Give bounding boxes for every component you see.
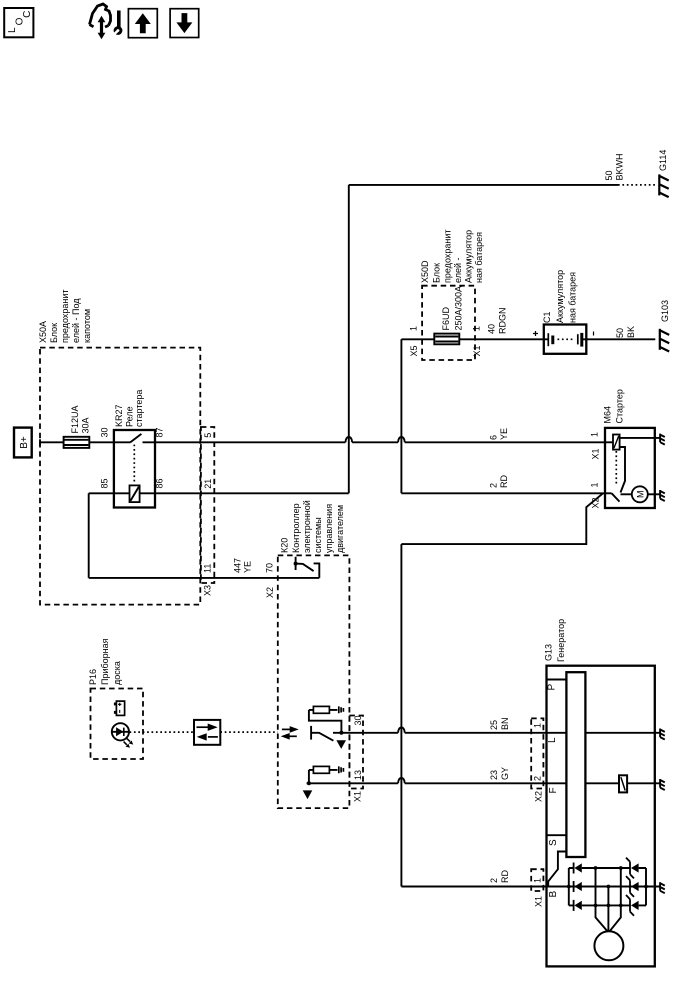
svg-text:RD: RD	[499, 475, 509, 488]
svg-text:предохранит: предохранит	[443, 230, 453, 283]
wire battery to G103 50 BK	[586, 338, 655, 340]
wire coil 85 to left	[89, 492, 130, 494]
starter actuation dashed link	[615, 451, 617, 486]
svg-text:1: 1	[472, 326, 482, 331]
starter switch blade	[605, 493, 620, 501]
svg-text:G13: G13	[544, 644, 554, 661]
wire hop 25 BN over B run	[398, 727, 405, 732]
relay KR27 actuation dashed link	[133, 445, 135, 484]
svg-text:системы: системы	[313, 517, 323, 553]
label 2 RD starter	[489, 475, 510, 488]
svg-text:1: 1	[533, 878, 543, 883]
svg-text:87: 87	[155, 427, 165, 437]
label 40 RDGN	[487, 308, 508, 335]
svg-text:X1: X1	[534, 896, 544, 907]
svg-text:Аккумулятор: Аккумулятор	[464, 230, 474, 283]
svg-text:YE: YE	[499, 428, 509, 440]
generator G13 box	[547, 666, 655, 967]
svg-text:G114: G114	[658, 150, 668, 171]
S sense wire	[548, 852, 566, 887]
svg-text:X1: X1	[591, 448, 601, 459]
fuse block X50A dashed box	[40, 348, 200, 605]
terminal L line	[547, 732, 660, 734]
svg-text:6: 6	[489, 435, 499, 440]
connector X2 of generator dashed strip	[531, 718, 543, 788]
svg-text:М: М	[635, 491, 645, 499]
fuse F6UD	[434, 334, 459, 345]
svg-text:BKWH: BKWH	[615, 154, 625, 181]
svg-text:C1: C1	[542, 311, 552, 323]
svg-text:B: B	[548, 891, 559, 898]
svg-text:Аккумулятор: Аккумулятор	[555, 270, 565, 323]
svg-text:F6UD: F6UD	[441, 306, 451, 330]
wire 23 GY to generator F	[405, 782, 547, 784]
svg-text:X2: X2	[534, 791, 544, 802]
wire 85 to X3 pin 11 and K20 pin 70	[89, 577, 320, 579]
wire battery vertical top corner	[400, 339, 402, 493]
wire to motor	[621, 493, 632, 495]
rectifier row1 line	[569, 867, 646, 869]
label 50 BKWH	[604, 154, 625, 181]
wire fuse to relay 30	[89, 441, 130, 443]
avalanche diode row2 right	[626, 876, 639, 897]
svg-text:F: F	[548, 787, 559, 793]
svg-text:S: S	[548, 839, 559, 846]
B+ power tap	[14, 428, 32, 458]
svg-text:L: L	[547, 737, 558, 743]
toolbar icon down-arrow box	[170, 9, 199, 38]
stator phase B	[607, 887, 609, 932]
K20 driver circuit pin 13	[303, 766, 344, 799]
starter solenoid coil	[605, 435, 620, 450]
svg-text:YE: YE	[243, 561, 253, 573]
pin tick at X50A boundary	[39, 439, 41, 445]
relay KR27 switch contact	[130, 434, 141, 442]
ground G103	[660, 329, 669, 352]
starter M64 box	[605, 428, 655, 508]
svg-text:C: C	[22, 11, 33, 18]
ground G114	[659, 174, 668, 197]
svg-text:40: 40	[487, 324, 497, 334]
wire hop 23 GY over B run	[398, 778, 405, 783]
svg-text:Блок: Блок	[49, 323, 59, 343]
rectifier row3 line	[569, 904, 646, 906]
svg-text:двигателем: двигателем	[335, 505, 345, 553]
ground generator F	[660, 779, 665, 790]
svg-text:13: 13	[353, 770, 363, 780]
wire B+ to fuse F12UA	[40, 441, 64, 443]
wire coil 86 to X3 pin 21	[140, 492, 349, 494]
svg-text:1: 1	[590, 482, 600, 487]
svg-text:RD: RD	[500, 870, 510, 883]
dotted data line to K20	[220, 731, 277, 733]
fuse block X50D dashed box	[422, 286, 475, 360]
label K20 engine control module	[280, 500, 346, 553]
label X50D fuse block battery	[420, 230, 484, 283]
svg-text:11: 11	[203, 564, 213, 573]
stator phase C	[610, 868, 621, 931]
svg-text:23: 23	[489, 770, 499, 780]
label C1 battery	[542, 270, 578, 323]
svg-text:25: 25	[489, 720, 499, 730]
label X50A fuse block under hood	[38, 290, 92, 343]
toolbar icon up-arrow box	[128, 9, 157, 38]
connector X1 of generator dashed strip	[531, 869, 543, 891]
svg-text:Генератор: Генератор	[556, 619, 566, 662]
stator phase A	[596, 868, 608, 931]
svg-text:50: 50	[604, 170, 614, 180]
wire fuse to battery 40 RDGN	[459, 338, 544, 340]
toolbar icon shift-arrows with wrench	[90, 4, 123, 39]
relay KR27 coil	[130, 485, 140, 502]
ECM K20 dashed box	[278, 555, 350, 808]
charge indicator LED	[112, 723, 133, 748]
svg-text:50: 50	[615, 328, 625, 338]
label M64 starter	[603, 389, 625, 423]
svg-text:30A: 30A	[81, 417, 91, 433]
svg-text:GY: GY	[500, 767, 510, 780]
svg-text:электронной: электронной	[302, 500, 312, 553]
svg-text:G103: G103	[660, 300, 670, 322]
svg-text:1: 1	[590, 432, 600, 437]
diode row3 left	[574, 900, 582, 911]
wire 86 vertical to G114 run	[348, 185, 350, 493]
ground starter motor	[660, 490, 665, 501]
svg-text:ная батарея: ная батарея	[568, 272, 578, 323]
K20 driver circuit pin 30	[309, 706, 346, 749]
diode row2 left	[574, 881, 582, 892]
svg-text:Реле: Реле	[125, 406, 135, 427]
dotted data line LED to arrows box	[130, 731, 195, 733]
wire 25 BN to generator L	[405, 732, 547, 734]
ground generator B	[660, 882, 665, 893]
wire starter X2 branch to generator	[401, 493, 603, 544]
label 50 BK	[615, 326, 636, 338]
wire hop main over 86-vertical	[346, 437, 353, 442]
ground generator L	[660, 729, 665, 740]
svg-text:предохранит: предохранит	[60, 290, 70, 343]
wire main 6 YE to starter	[405, 441, 605, 443]
svg-text:управления: управления	[324, 504, 334, 553]
svg-text:X1: X1	[472, 345, 482, 356]
avalanche diode row3 right	[626, 895, 639, 916]
wire 2 RD battery to starter X2	[401, 492, 605, 494]
svg-text:елей -: елей -	[453, 258, 463, 284]
label 447 YE	[233, 558, 253, 573]
svg-text:X50D: X50D	[420, 260, 430, 283]
wire main continue to battery vertical	[352, 441, 398, 443]
label 2 RD generator	[489, 870, 510, 883]
svg-text:250A/300A: 250A/300A	[454, 286, 464, 331]
svg-text:Блок: Блок	[432, 263, 442, 283]
field suppression element	[619, 775, 627, 792]
label 6 YE	[489, 428, 510, 440]
svg-text:RDGN: RDGN	[498, 308, 508, 335]
svg-text:30: 30	[353, 715, 363, 725]
svg-text:X50A: X50A	[38, 321, 48, 343]
terminal P stub	[547, 679, 567, 681]
serial data arrows at K20 boundary	[281, 726, 299, 740]
minus mark	[593, 332, 595, 336]
label F12UA 30A	[70, 405, 91, 433]
battery telltale icon	[114, 701, 125, 715]
svg-text:30: 30	[100, 427, 110, 437]
svg-text:L: L	[7, 27, 18, 33]
svg-text:86: 86	[155, 478, 165, 488]
fuse F12UA	[64, 437, 90, 448]
wire relay 87 side	[143, 441, 346, 443]
starter motor M	[632, 486, 648, 502]
svg-text:2: 2	[489, 878, 499, 883]
wire 85 down leg	[88, 493, 90, 578]
wire generator B vertical run	[400, 544, 402, 886]
svg-text:К20: К20	[280, 538, 290, 553]
svg-text:ная батарея: ная батарея	[474, 232, 484, 283]
svg-text:1: 1	[409, 326, 419, 331]
instrument panel P16 dashed box	[91, 689, 144, 760]
svg-text:BK: BK	[626, 326, 636, 338]
svg-text:2: 2	[533, 776, 543, 781]
diode row1 left	[574, 863, 582, 874]
wire 2 RD to generator B	[401, 886, 546, 888]
svg-text:X2: X2	[265, 587, 275, 598]
rectifier right rail	[645, 868, 647, 905]
svg-text:доска: доска	[112, 661, 122, 685]
label P16 instrument panel	[88, 638, 122, 685]
toolbar icon LOC box	[4, 8, 33, 37]
svg-text:X1: X1	[353, 791, 363, 802]
svg-text:BN: BN	[500, 717, 510, 730]
label F6UD 250A/300A	[441, 286, 464, 331]
wire to G114 horizontal	[349, 184, 618, 186]
wire solenoid contact feed	[620, 447, 625, 493]
svg-text:70: 70	[265, 563, 275, 573]
svg-text:капотом: капотом	[82, 309, 92, 343]
connector X3 dashed strip	[201, 427, 214, 583]
connector X1 of K20 dashed strip	[349, 716, 363, 789]
terminal S stub	[547, 834, 567, 836]
svg-text:X3: X3	[203, 585, 213, 596]
svg-text:P: P	[547, 684, 558, 691]
dotted lead to G114	[618, 184, 655, 186]
svg-text:стартера: стартера	[134, 390, 144, 427]
label KR27 starter relay	[114, 390, 144, 427]
ground starter solenoid	[660, 434, 665, 445]
svg-text:P16: P16	[88, 669, 98, 685]
svg-text:F12UA: F12UA	[70, 405, 80, 433]
svg-text:Приборная: Приборная	[100, 638, 110, 685]
regulator bar	[566, 672, 585, 857]
svg-text:елей - Под: елей - Под	[71, 298, 81, 343]
svg-text:X5: X5	[409, 345, 419, 356]
svg-text:X2: X2	[591, 497, 601, 508]
svg-text:5: 5	[203, 433, 213, 438]
serial data arrows box	[194, 720, 220, 745]
battery C1	[544, 325, 587, 354]
svg-text:447: 447	[233, 558, 243, 573]
avalanche diode row1 right	[626, 858, 639, 879]
rectifier left rail	[568, 868, 570, 905]
rotor circle	[594, 931, 623, 960]
K20 pin 70 switch symbol	[294, 557, 320, 578]
label 25 BN	[489, 717, 510, 730]
svg-text:M64: M64	[603, 406, 613, 424]
relay KR27 box	[114, 430, 155, 508]
terminal B line	[547, 886, 660, 888]
svg-text:B+: B+	[19, 436, 30, 449]
svg-text:KR27: KR27	[114, 404, 124, 427]
wire motor to case ground	[648, 493, 660, 495]
svg-text:Стартер: Стартер	[615, 389, 625, 423]
wire solenoid to case ground	[620, 437, 660, 439]
svg-text:2: 2	[489, 483, 499, 488]
label 23 GY	[489, 767, 510, 780]
terminal F line	[547, 782, 660, 784]
svg-text:1: 1	[533, 723, 543, 728]
plus mark	[533, 331, 538, 336]
wire hop main over battery vertical	[398, 437, 405, 442]
wire K20 pin 13 output	[307, 782, 399, 784]
label G13 generator	[544, 619, 567, 662]
wire K20 pin 30 output	[333, 732, 398, 734]
junction dots rectifier	[567, 866, 648, 907]
svg-text:85: 85	[100, 478, 110, 488]
wire X5 side	[401, 338, 434, 340]
svg-text:21: 21	[203, 479, 213, 489]
svg-text:Контроллер: Контроллер	[291, 503, 301, 553]
